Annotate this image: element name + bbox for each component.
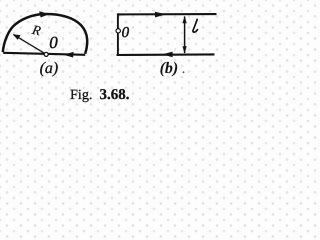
stray dot after (b): [183, 71, 185, 73]
svg-text:R: R: [30, 22, 43, 39]
dimension arrowhead down: [183, 46, 187, 54]
svg-text:0: 0: [49, 33, 58, 52]
radius arrowhead: [13, 34, 21, 40]
wire: diameter of loop (a): [3, 53, 85, 55]
current arrow on bottom conductor: [162, 52, 172, 58]
current direction arrow on diameter: [63, 52, 73, 58]
svg-text:3.68.: 3.68.: [100, 87, 130, 103]
svg-text:Fig.: Fig.: [70, 87, 92, 103]
wire: semicircular arc of loop (a): [3, 14, 87, 54]
current arrow on top conductor: [155, 12, 166, 18]
radius line R: [14, 35, 46, 55]
svg-text:(b): (b): [160, 60, 179, 77]
value label l: [193, 19, 198, 32]
wire: left vertical conductor of (b): [117, 13, 119, 55]
svg-text:(a): (a): [40, 60, 59, 77]
node O on left conductor: [116, 29, 120, 33]
svg-text:0: 0: [122, 25, 130, 41]
dimension line l shaft: [184, 17, 186, 54]
wire: bottom conductor of (b): [117, 53, 215, 56]
dimension arrowhead up: [183, 16, 187, 24]
wire: top conductor of (b): [117, 13, 217, 15]
current direction arrow on arc: [39, 11, 49, 17]
node O centre of semicircle: [44, 52, 48, 56]
